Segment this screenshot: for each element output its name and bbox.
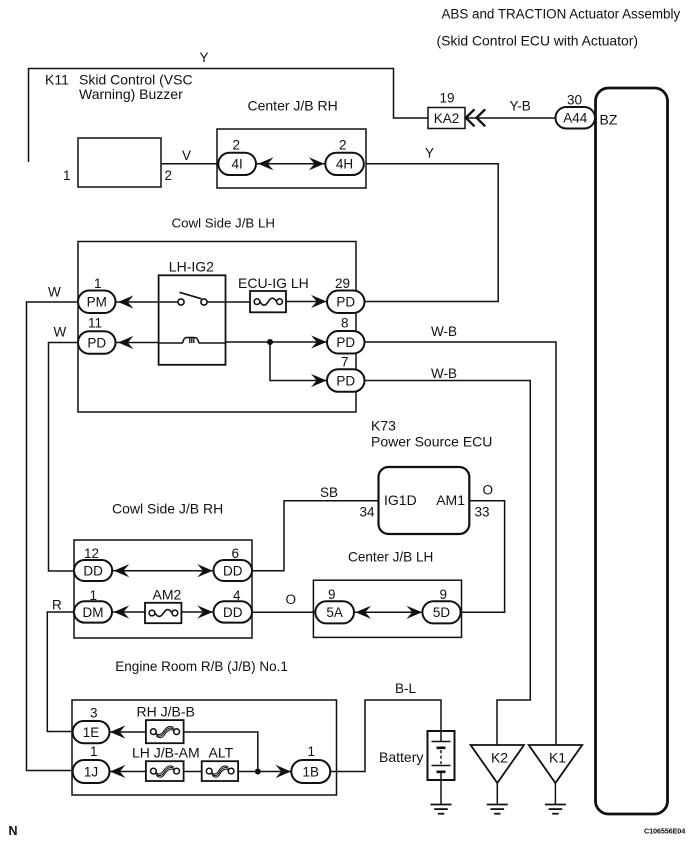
svg-text:2: 2 xyxy=(165,168,173,183)
svg-text:Battery: Battery xyxy=(379,749,423,765)
svg-text:K73: K73 xyxy=(371,418,396,434)
svg-text:RH J/B-B: RH J/B-B xyxy=(137,704,195,720)
svg-text:Engine Room R/B (J/B) No.1: Engine Room R/B (J/B) No.1 xyxy=(115,659,288,674)
svg-text:R: R xyxy=(52,598,62,613)
svg-text:W: W xyxy=(48,285,61,300)
svg-text:Cowl Side J/B LH: Cowl Side J/B LH xyxy=(172,216,275,231)
svg-text:5D: 5D xyxy=(433,605,451,620)
svg-text:1J: 1J xyxy=(84,764,98,779)
svg-text:Center J/B LH: Center J/B LH xyxy=(348,549,433,564)
svg-text:K11: K11 xyxy=(45,72,69,88)
svg-text:8: 8 xyxy=(341,316,349,331)
svg-text:B-L: B-L xyxy=(395,681,417,696)
svg-text:DD: DD xyxy=(223,605,243,620)
svg-text:29: 29 xyxy=(335,276,350,291)
svg-text:19: 19 xyxy=(440,91,455,106)
svg-text:12: 12 xyxy=(84,546,99,561)
svg-text:N: N xyxy=(9,824,18,838)
svg-text:AM1: AM1 xyxy=(436,492,465,508)
svg-text:2: 2 xyxy=(233,138,241,153)
svg-text:PD: PD xyxy=(336,335,355,350)
svg-text:1B: 1B xyxy=(303,764,320,779)
svg-text:1: 1 xyxy=(90,744,98,759)
svg-text:PD: PD xyxy=(336,295,355,310)
svg-text:LH-IG2: LH-IG2 xyxy=(169,259,214,275)
svg-text:AM2: AM2 xyxy=(153,587,182,603)
svg-text:34: 34 xyxy=(360,505,376,520)
svg-text:11: 11 xyxy=(88,316,102,331)
svg-text:KA2: KA2 xyxy=(434,111,460,126)
svg-text:O: O xyxy=(286,592,297,607)
svg-text:K1: K1 xyxy=(549,750,566,766)
svg-text:ECU-IG LH: ECU-IG LH xyxy=(238,275,309,291)
svg-text:Center J/B RH: Center J/B RH xyxy=(248,98,338,114)
svg-text:K2: K2 xyxy=(491,750,508,766)
svg-text:DM: DM xyxy=(83,605,104,620)
svg-text:7: 7 xyxy=(341,355,349,370)
svg-text:4I: 4I xyxy=(232,157,243,172)
svg-text:4H: 4H xyxy=(336,157,353,172)
svg-text:33: 33 xyxy=(475,505,490,520)
svg-text:DD: DD xyxy=(223,563,243,578)
svg-text:PD: PD xyxy=(336,373,355,388)
svg-text:C106556E04: C106556E04 xyxy=(644,827,686,836)
svg-text:9: 9 xyxy=(440,587,448,602)
svg-text:Power Source ECU: Power Source ECU xyxy=(371,434,492,450)
svg-text:1E: 1E xyxy=(83,725,100,740)
svg-text:SB: SB xyxy=(320,485,338,500)
svg-text:PD: PD xyxy=(87,335,106,350)
svg-text:W: W xyxy=(54,325,67,340)
svg-text:V: V xyxy=(182,148,191,163)
svg-text:9: 9 xyxy=(328,587,336,602)
svg-text:1: 1 xyxy=(94,276,102,291)
svg-text:(Skid Control ECU with Actuato: (Skid Control ECU with Actuator) xyxy=(437,32,638,48)
svg-text:1: 1 xyxy=(63,168,71,183)
svg-text:Y: Y xyxy=(425,146,434,161)
svg-text:Cowl Side J/B RH: Cowl Side J/B RH xyxy=(112,500,223,516)
svg-text:Warning) Buzzer: Warning) Buzzer xyxy=(79,86,183,102)
svg-text:LH J/B-AM: LH J/B-AM xyxy=(132,745,200,761)
svg-text:PM: PM xyxy=(87,295,107,310)
svg-text:W-B: W-B xyxy=(431,324,457,339)
svg-text:2: 2 xyxy=(339,138,347,153)
svg-text:Y-B: Y-B xyxy=(510,99,531,114)
svg-text:30: 30 xyxy=(567,93,582,108)
svg-text:BZ: BZ xyxy=(600,112,618,128)
svg-text:IG1D: IG1D xyxy=(384,492,417,508)
svg-text:A44: A44 xyxy=(563,111,588,126)
svg-text:6: 6 xyxy=(232,546,240,561)
svg-text:3: 3 xyxy=(90,706,98,721)
svg-text:ABS and TRACTION Actuator Asse: ABS and TRACTION Actuator Assembly xyxy=(442,6,681,21)
svg-text:1: 1 xyxy=(308,744,316,759)
svg-text:5A: 5A xyxy=(326,605,343,620)
svg-text:W-B: W-B xyxy=(431,366,457,381)
svg-text:Y: Y xyxy=(200,50,209,65)
svg-text:DD: DD xyxy=(83,563,103,578)
svg-text:ALT: ALT xyxy=(209,745,234,761)
svg-text:O: O xyxy=(483,483,494,498)
